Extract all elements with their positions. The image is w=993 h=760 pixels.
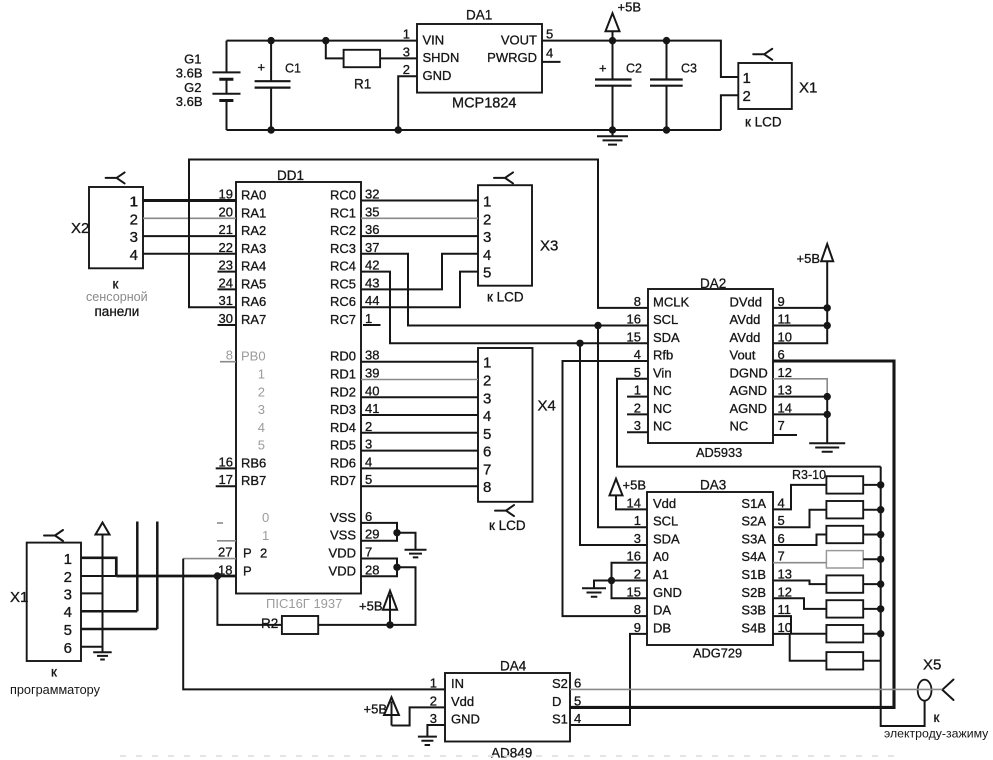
svg-text:X4: X4 bbox=[538, 398, 556, 415]
svg-text:8: 8 bbox=[634, 294, 641, 309]
ground under DA2 bbox=[809, 443, 845, 451]
wire RC4 to SDA line bbox=[361, 272, 648, 344]
capacitor C3 bbox=[650, 41, 697, 130]
node bus R4 bbox=[877, 506, 884, 513]
DD1 pin 16 RB6 stub bbox=[216, 467, 236, 469]
wire SCL down to DA3 pin1 bbox=[598, 326, 647, 528]
node C1 bottom bbox=[267, 126, 274, 133]
wire RD2 to X4 pin3 bbox=[361, 396, 478, 398]
resistor R6 bbox=[826, 551, 863, 568]
svg-text:NC: NC bbox=[653, 419, 672, 434]
svg-text:2: 2 bbox=[743, 88, 751, 105]
svg-text:5: 5 bbox=[778, 513, 785, 528]
svg-text:SDA: SDA bbox=[653, 532, 680, 547]
svg-text:AGND: AGND bbox=[730, 401, 768, 416]
wire RC0 to X3 pin1 bbox=[361, 200, 478, 202]
svg-text:4: 4 bbox=[546, 45, 553, 60]
wire R4 to bus bbox=[863, 509, 881, 511]
svg-text:2: 2 bbox=[634, 567, 641, 582]
svg-text:4: 4 bbox=[778, 495, 785, 510]
svg-text:1: 1 bbox=[483, 355, 491, 372]
svg-text:41: 41 bbox=[365, 401, 379, 416]
svg-text:DA1: DA1 bbox=[466, 8, 492, 23]
wire GND pin15 bbox=[612, 581, 648, 599]
wire X2 pin2 to RA1 bbox=[143, 217, 236, 219]
svg-text:S1: S1 bbox=[552, 712, 568, 727]
wire DA3 S pin to R4 bbox=[773, 510, 826, 528]
wire DB pin9 to DA4 S1 pin4 bbox=[570, 634, 647, 725]
svg-text:1: 1 bbox=[258, 367, 265, 382]
wire A0 pin16 bbox=[612, 563, 648, 581]
svg-text:8: 8 bbox=[634, 602, 641, 617]
svg-text:10: 10 bbox=[778, 620, 792, 635]
svg-text:13: 13 bbox=[778, 567, 792, 582]
svg-text:SCL: SCL bbox=[653, 312, 678, 327]
svg-text:X2: X2 bbox=[71, 220, 89, 237]
svg-text:3: 3 bbox=[430, 711, 437, 726]
node C1 top bbox=[267, 37, 274, 44]
resistor R3 bbox=[826, 476, 863, 493]
svg-text:программатору: программатору bbox=[10, 683, 101, 697]
svg-text:2: 2 bbox=[483, 211, 491, 228]
svg-text:VDD: VDD bbox=[329, 546, 356, 561]
svg-text:AD5933: AD5933 bbox=[696, 445, 742, 460]
svg-text:RD6: RD6 bbox=[330, 455, 356, 470]
DD1 pin 17 RB7 stub bbox=[216, 485, 236, 487]
resistor R7 bbox=[826, 575, 863, 592]
svg-text:DA: DA bbox=[653, 603, 671, 618]
node bus R3 bbox=[877, 481, 884, 488]
wire DA3 S pin to R7 bbox=[773, 581, 826, 585]
svg-text:3: 3 bbox=[483, 229, 491, 246]
svg-text:RA5: RA5 bbox=[241, 276, 266, 291]
svg-text:DA2: DA2 bbox=[700, 276, 726, 291]
svg-text:D: D bbox=[552, 694, 561, 709]
svg-text:6: 6 bbox=[778, 531, 785, 546]
IC DA2 AD5933 bbox=[627, 276, 797, 460]
svg-text:4: 4 bbox=[64, 604, 72, 621]
svg-text:+5В: +5В bbox=[797, 251, 821, 266]
connector X4 to LCD bbox=[478, 348, 556, 533]
wire resistor bus to X5 bbox=[881, 467, 925, 726]
wire DD1 VSS pins to ground bbox=[361, 523, 416, 550]
svg-text:SCL: SCL bbox=[653, 514, 678, 529]
svg-text:RA0: RA0 bbox=[241, 188, 266, 203]
svg-text:к LCD: к LCD bbox=[487, 290, 524, 305]
svg-text:3.6В: 3.6В bbox=[176, 66, 203, 81]
wire bottom ground rail bbox=[227, 129, 721, 131]
svg-text:RC1: RC1 bbox=[330, 205, 356, 220]
svg-text:A0: A0 bbox=[653, 549, 669, 564]
svg-text:S1B: S1B bbox=[741, 567, 766, 582]
svg-text:1: 1 bbox=[365, 311, 372, 326]
svg-text:C2: C2 bbox=[626, 62, 642, 76]
svg-text:4: 4 bbox=[634, 347, 641, 362]
svg-text:20: 20 bbox=[219, 204, 233, 219]
resistor R4 bbox=[826, 501, 863, 518]
svg-text:DD1: DD1 bbox=[277, 168, 304, 183]
node bus R5 bbox=[877, 531, 884, 538]
svg-text:27: 27 bbox=[218, 545, 232, 560]
node SDA junction bbox=[576, 340, 583, 347]
MCU DD1 PIC16F1937 bbox=[236, 168, 361, 611]
svg-text:C1: C1 bbox=[285, 62, 301, 76]
svg-text:RD3: RD3 bbox=[330, 402, 356, 417]
svg-text:21: 21 bbox=[219, 222, 233, 237]
ground at DA3 A1 bbox=[582, 588, 606, 596]
wire RC5 to X3 pin4 bbox=[361, 254, 478, 290]
svg-text:9: 9 bbox=[778, 294, 785, 309]
svg-text:7: 7 bbox=[778, 418, 785, 433]
wire DD1 pin27 to DA4 IN pin1 bbox=[183, 558, 236, 560]
wire SDA down to DA3 pin3 bbox=[580, 343, 647, 545]
svg-text:16: 16 bbox=[627, 549, 641, 564]
svg-text:13: 13 bbox=[778, 383, 792, 398]
svg-text:3: 3 bbox=[258, 402, 265, 417]
svg-text:29: 29 bbox=[365, 527, 379, 542]
wire AGND pin13 bbox=[773, 396, 827, 398]
svg-text:3: 3 bbox=[130, 229, 138, 246]
node DVdd bbox=[824, 304, 831, 311]
IC DA4 AD849 bbox=[430, 659, 581, 760]
svg-text:R3-10: R3-10 bbox=[792, 468, 826, 482]
svg-text:+: + bbox=[599, 61, 607, 76]
wire X1b pin5 vertical bbox=[81, 522, 157, 630]
svg-text:9: 9 bbox=[634, 620, 641, 635]
svg-text:6: 6 bbox=[574, 675, 581, 690]
svg-text:42: 42 bbox=[365, 258, 379, 273]
svg-text:3: 3 bbox=[64, 586, 72, 603]
wire R5 to bus bbox=[863, 534, 881, 536]
DD1 pin 30 RA7 stub bbox=[218, 324, 237, 326]
svg-text:15: 15 bbox=[627, 584, 641, 599]
svg-text:GND: GND bbox=[653, 585, 682, 600]
svg-text:RC4: RC4 bbox=[330, 259, 356, 274]
wire A1 pin2 to ground bbox=[594, 581, 647, 589]
battery G1 G2 3.6V bbox=[176, 41, 241, 130]
svg-text:16: 16 bbox=[627, 312, 641, 327]
DD1 RB pin labels faded bbox=[219, 348, 267, 489]
wire RD1 to X4 pin2 bbox=[361, 379, 478, 381]
wire Vin pin5 to resistor bus bbox=[617, 379, 881, 467]
svg-text:6: 6 bbox=[483, 444, 491, 461]
svg-text:0: 0 bbox=[262, 510, 269, 525]
svg-text:SHDN: SHDN bbox=[423, 50, 460, 65]
svg-text:ПІС16Г 1937: ПІС16Г 1937 bbox=[266, 596, 342, 611]
IC DA3 ADG729 bbox=[627, 478, 792, 661]
svg-text:2: 2 bbox=[634, 400, 641, 415]
wire X2 pin3 to RA2 bbox=[143, 235, 236, 237]
svg-text:4: 4 bbox=[258, 420, 265, 435]
svg-text:RA1: RA1 bbox=[241, 205, 266, 220]
svg-text:S3A: S3A bbox=[741, 532, 766, 547]
wire AGND pin14 bbox=[773, 413, 827, 415]
svg-text:RA7: RA7 bbox=[241, 312, 266, 327]
pin4 PWRGD stub bbox=[542, 61, 561, 63]
svg-text:X1: X1 bbox=[10, 589, 28, 606]
svg-text:3: 3 bbox=[634, 418, 641, 433]
svg-text:RD0: RD0 bbox=[330, 349, 356, 364]
svg-text:сенсорной: сенсорной bbox=[86, 290, 148, 304]
wire DVdd pin9 bbox=[773, 307, 827, 309]
svg-text:5: 5 bbox=[64, 622, 72, 639]
svg-text:1: 1 bbox=[634, 383, 641, 398]
power +5B at DA2 bbox=[797, 244, 834, 266]
svg-text:16: 16 bbox=[219, 454, 233, 469]
svg-text:IN: IN bbox=[451, 676, 464, 691]
wire R3 to bus bbox=[863, 484, 881, 486]
wire RC1 to X3 pin2 bbox=[361, 217, 478, 219]
arrow symbol above X1b bbox=[96, 523, 110, 535]
svg-text:32: 32 bbox=[365, 187, 379, 202]
svg-text:X1: X1 bbox=[799, 80, 817, 97]
svg-text:RA6: RA6 bbox=[241, 294, 266, 309]
svg-text:5: 5 bbox=[483, 426, 491, 443]
connector X2 to touch panel bbox=[71, 172, 148, 319]
wire R8 to bus bbox=[863, 608, 881, 610]
svg-text:MCLK: MCLK bbox=[653, 294, 689, 309]
svg-text:40: 40 bbox=[365, 383, 379, 398]
svg-text:DGND: DGND bbox=[730, 365, 768, 380]
wire DA3 S pin to R9 bbox=[773, 616, 826, 634]
svg-text:RC6: RC6 bbox=[330, 294, 356, 309]
svg-text:DA3: DA3 bbox=[700, 478, 726, 493]
svg-text:A1: A1 bbox=[653, 567, 669, 582]
svg-text:Vdd: Vdd bbox=[451, 694, 474, 709]
node VSS branch bbox=[393, 529, 400, 536]
svg-text:2: 2 bbox=[130, 211, 138, 228]
wire DD1 VDD pins bbox=[361, 559, 397, 577]
capacitor C2 bbox=[595, 41, 642, 130]
node VDD branch bbox=[393, 564, 400, 571]
svg-text:4: 4 bbox=[365, 454, 372, 469]
svg-text:3.6В: 3.6В bbox=[176, 94, 203, 109]
svg-text:+5В: +5В bbox=[364, 702, 388, 717]
node AGND13 bbox=[824, 393, 831, 400]
svg-text:Vout: Vout bbox=[730, 348, 756, 363]
svg-text:S3B: S3B bbox=[741, 603, 766, 618]
svg-text:1: 1 bbox=[130, 194, 138, 211]
svg-text:VDD: VDD bbox=[329, 563, 356, 578]
wire X1b pin6 bbox=[81, 646, 103, 648]
ground under C2 bbox=[597, 130, 628, 145]
wire DA3 S pin to R5 bbox=[773, 535, 826, 546]
node +5B C2 top bbox=[609, 37, 616, 44]
wire RD7 to X4 pin8 bbox=[361, 485, 478, 487]
svg-text:ADG729: ADG729 bbox=[693, 646, 742, 661]
svg-text:к: к bbox=[51, 664, 57, 679]
DD1 RC pin labels bbox=[330, 187, 379, 328]
node R1 branch bbox=[322, 37, 329, 44]
svg-text:4: 4 bbox=[574, 711, 581, 726]
svg-text:15: 15 bbox=[627, 329, 641, 344]
svg-text:DA4: DA4 bbox=[500, 659, 527, 674]
node AGND14 bbox=[824, 411, 831, 418]
svg-text:39: 39 bbox=[365, 366, 379, 381]
wire +5B to DVdd AVdd bbox=[773, 261, 827, 343]
wire DA3 S pin to R8 bbox=[773, 598, 826, 609]
DD1 pin 1 RC7 stub bbox=[363, 324, 381, 326]
ground at DD1 VSS bbox=[405, 550, 427, 558]
node C3 bottom bbox=[663, 126, 670, 133]
svg-text:10: 10 bbox=[778, 329, 792, 344]
svg-text:3: 3 bbox=[634, 531, 641, 546]
svg-text:VOUT: VOUT bbox=[501, 32, 537, 47]
connector X1 top to LCD bbox=[738, 49, 817, 130]
svg-text:S2A: S2A bbox=[741, 514, 766, 529]
svg-text:AD849: AD849 bbox=[491, 746, 532, 760]
wire DA3 S pin to R6 bbox=[773, 562, 826, 564]
wire X1 pin2 to bottom rail bbox=[721, 95, 738, 130]
svg-text:14: 14 bbox=[778, 400, 792, 415]
svg-text:G2: G2 bbox=[184, 80, 201, 95]
svg-text:к LCD: к LCD bbox=[745, 115, 782, 130]
capacitor C1 bbox=[255, 41, 301, 130]
svg-text:24: 24 bbox=[219, 275, 233, 290]
svg-text:28: 28 bbox=[365, 562, 379, 577]
svg-text:1: 1 bbox=[403, 27, 410, 42]
resistor R2 bbox=[217, 576, 318, 634]
wire R10 to bus bbox=[863, 660, 881, 662]
connector X5 electrode clamp bbox=[884, 657, 989, 741]
svg-text:4: 4 bbox=[483, 408, 491, 425]
node SCL junction bbox=[594, 322, 601, 329]
svg-text:R2: R2 bbox=[261, 616, 278, 631]
wire programming line to DD1 pin18 thick bbox=[116, 575, 236, 578]
svg-text:5: 5 bbox=[634, 365, 641, 380]
svg-text:AVdd: AVdd bbox=[730, 330, 761, 345]
wire DGND pin12 to ground bbox=[773, 379, 827, 397]
svg-text:37: 37 bbox=[365, 240, 379, 255]
node A1 junction bbox=[608, 577, 615, 584]
svg-text:MCP1824: MCP1824 bbox=[452, 96, 516, 112]
svg-text:11: 11 bbox=[778, 312, 792, 327]
svg-text:12: 12 bbox=[778, 365, 792, 380]
svg-text:14: 14 bbox=[627, 495, 641, 510]
wire X1b vertical to ground bbox=[102, 535, 104, 653]
svg-text:2: 2 bbox=[258, 384, 265, 399]
wire DA3 S pin to R3 bbox=[773, 485, 826, 510]
DD1 VSS VDD pin labels bbox=[329, 509, 380, 578]
svg-text:C3: C3 bbox=[681, 62, 697, 76]
node bus R9 bbox=[877, 630, 884, 637]
svg-text:2: 2 bbox=[365, 419, 372, 434]
svg-text:Rfb: Rfb bbox=[653, 348, 673, 363]
svg-text:22: 22 bbox=[219, 240, 233, 255]
svg-text:6: 6 bbox=[64, 640, 72, 657]
wire RD4 to X4 pin5 bbox=[361, 432, 478, 434]
svg-text:8: 8 bbox=[226, 348, 233, 363]
svg-text:RA4: RA4 bbox=[241, 259, 266, 274]
svg-text:DVdd: DVdd bbox=[730, 294, 763, 309]
svg-text:RC0: RC0 bbox=[330, 188, 356, 203]
svg-text:электроду-зажиму: электроду-зажиму bbox=[884, 727, 989, 741]
svg-text:5: 5 bbox=[574, 693, 581, 708]
svg-text:RD5: RD5 bbox=[330, 438, 356, 453]
svg-text:РВ0: РВ0 bbox=[241, 349, 266, 364]
wire X1b pin1 jog bbox=[81, 558, 116, 576]
svg-text:NC: NC bbox=[730, 419, 749, 434]
connector X1 bottom to programmer bbox=[10, 530, 101, 697]
DD1 lower left pins 25 26 27 18 bbox=[217, 510, 269, 578]
svg-text:2: 2 bbox=[260, 546, 267, 561]
svg-text:1: 1 bbox=[430, 675, 437, 690]
wire RD3 to X4 pin4 bbox=[361, 414, 478, 416]
svg-text:5: 5 bbox=[258, 438, 265, 453]
DA2 NC stubs left pins 1 2 3 bbox=[627, 397, 648, 433]
node C3 top bbox=[663, 37, 670, 44]
node bus R8 bbox=[877, 605, 884, 612]
svg-text:+5В: +5В bbox=[618, 0, 642, 15]
wire RC2 to X3 pin3 bbox=[361, 235, 478, 237]
svg-text:NC: NC bbox=[653, 383, 672, 398]
power +5B at DD1 VDD bbox=[359, 591, 397, 626]
node bus R7 bbox=[877, 580, 884, 587]
svg-text:панели: панели bbox=[95, 304, 140, 319]
svg-text:4: 4 bbox=[483, 247, 491, 264]
wire RD5 to X4 pin6 bbox=[361, 450, 478, 452]
power +5B at VOUT bbox=[606, 0, 642, 41]
svg-text:5: 5 bbox=[365, 472, 372, 487]
svg-text:RD4: RD4 bbox=[330, 420, 356, 435]
svg-text:S4A: S4A bbox=[741, 549, 766, 564]
wire DA3 S pin to R10 bbox=[773, 634, 826, 661]
resistor R9 bbox=[826, 625, 863, 642]
wire Rfb pin4 to DA3 DA pin8 bbox=[563, 361, 649, 616]
wire top rail battery to DA1 VIN pin1 bbox=[227, 40, 418, 42]
svg-text:2: 2 bbox=[64, 569, 72, 586]
node C2 bottom bbox=[609, 126, 616, 133]
svg-text:23: 23 bbox=[219, 258, 233, 273]
svg-text:к LCD: к LCD bbox=[489, 518, 526, 533]
wire X1b pin3 bbox=[81, 592, 103, 594]
svg-text:AGND: AGND bbox=[730, 383, 768, 398]
svg-text:RC3: RC3 bbox=[330, 241, 356, 256]
wire DA1 GND pin2 to rail bbox=[398, 76, 417, 130]
wire R9 to bus bbox=[863, 633, 881, 635]
svg-text:7: 7 bbox=[483, 461, 491, 478]
svg-text:1: 1 bbox=[634, 513, 641, 528]
svg-text:43: 43 bbox=[365, 275, 379, 290]
svg-text:17: 17 bbox=[219, 472, 233, 487]
svg-text:RD1: RD1 bbox=[330, 367, 356, 382]
svg-text:G1: G1 bbox=[184, 52, 201, 67]
wire RD6 to X4 pin7 bbox=[361, 467, 478, 469]
svg-text:PWRGD: PWRGD bbox=[487, 50, 537, 65]
svg-text:1: 1 bbox=[262, 528, 269, 543]
power +5B at DA4 Vdd bbox=[364, 697, 446, 725]
svg-text:5: 5 bbox=[483, 265, 491, 282]
svg-text:12: 12 bbox=[778, 584, 792, 599]
svg-text:4: 4 bbox=[130, 247, 138, 264]
power +5B at DA3 Vdd bbox=[610, 478, 648, 510]
svg-text:GND: GND bbox=[451, 712, 480, 727]
scan artifact bottom bbox=[120, 755, 900, 757]
svg-text:2: 2 bbox=[430, 693, 437, 708]
svg-text:36: 36 bbox=[365, 222, 379, 237]
svg-text:35: 35 bbox=[365, 204, 379, 219]
svg-text:RC5: RC5 bbox=[330, 276, 356, 291]
DD1 pin 23 RA4 stub bbox=[218, 271, 237, 273]
svg-text:8: 8 bbox=[483, 479, 491, 496]
svg-text:S2: S2 bbox=[552, 676, 568, 691]
resistor R10 bbox=[826, 652, 863, 669]
svg-text:+5В: +5В bbox=[623, 478, 647, 493]
svg-text:38: 38 bbox=[365, 348, 379, 363]
svg-text:1: 1 bbox=[64, 551, 72, 568]
svg-text:6: 6 bbox=[365, 509, 372, 524]
wire AVdd pin11 bbox=[773, 325, 827, 327]
